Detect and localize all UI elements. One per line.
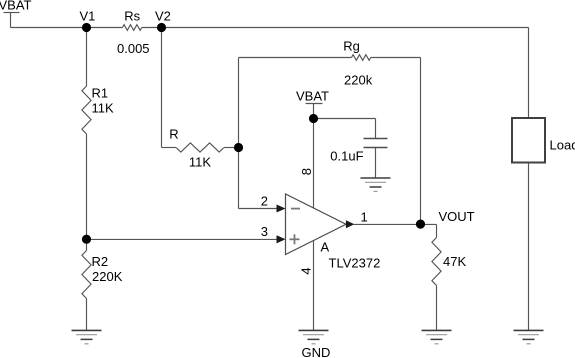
power flag VBAT (top-left) [4, 13, 20, 28]
svg-text:Rs: Rs [124, 9, 140, 24]
ground (R2) [72, 330, 102, 343]
arrowhead output pin 1 [346, 220, 355, 228]
svg-text:220K: 220K [92, 269, 123, 284]
svg-text:V2: V2 [155, 9, 171, 24]
ground (load) [514, 330, 544, 343]
svg-text:R: R [169, 127, 178, 142]
resistor R2 (220K) [82, 251, 91, 299]
svg-text:Load: Load [550, 138, 575, 153]
wire: feedback node vertical (to Rg top and pin2) [238, 58, 240, 209]
arrowhead pin 3 [277, 235, 286, 243]
wire: Rg loop right vertical to output [420, 58, 422, 225]
svg-text:VBAT: VBAT [0, 0, 32, 13]
minus sign (pin 2) [291, 208, 300, 210]
svg-text:47K: 47K [443, 254, 466, 269]
op-amp U1 TLV2372 triangle [286, 194, 347, 255]
wire: output to 47K branch [421, 223, 437, 225]
wire: cap to ground [375, 148, 377, 179]
junction dot node A (pin3) [82, 235, 91, 244]
junction dot VBAT supply [309, 114, 318, 123]
svg-text:R2: R2 [92, 254, 109, 269]
svg-text:2: 2 [261, 194, 268, 209]
svg-text:3: 3 [261, 224, 268, 239]
wire: load to ground [528, 163, 530, 331]
wire: load branch down from top rail [528, 28, 530, 119]
svg-text:TLV2372: TLV2372 [329, 255, 381, 270]
svg-text:0.005: 0.005 [117, 41, 150, 56]
svg-text:4: 4 [299, 267, 314, 274]
arrowhead pin 2 [277, 205, 286, 213]
junction dot VOUT [416, 220, 425, 229]
wire: R1 to node A junction [86, 134, 88, 251]
resistor R (11K) [176, 143, 224, 152]
wire: pin 8 supply vertical [313, 119, 315, 209]
load box [512, 118, 545, 163]
wire: VOUT branch down [436, 224, 438, 237]
wire: supply node to bypass cap [314, 118, 376, 120]
resistor Rg (220k) [352, 55, 371, 61]
wire: Rg to right vertical [371, 57, 421, 59]
svg-text:V1: V1 [80, 9, 96, 24]
plus sign (pin 3) [290, 234, 300, 244]
resistor R1 (11K) [82, 86, 91, 134]
svg-text:R1: R1 [92, 86, 109, 101]
wire: down to cap [375, 119, 377, 139]
junction dot V2 [157, 23, 166, 32]
wire: pin 4 to ground [313, 241, 315, 331]
wire: Rg loop top left segment [239, 57, 352, 59]
wire: R2 to ground [86, 299, 88, 331]
ground (bypass cap) [361, 178, 391, 191]
wire: R to feedback node [224, 147, 239, 149]
wire: pin 3 input from node A [87, 238, 277, 240]
ground (47K) [422, 330, 452, 343]
svg-text:Rg: Rg [343, 39, 360, 54]
svg-text:220k: 220k [344, 73, 373, 88]
svg-text:VOUT: VOUT [439, 209, 475, 224]
wire: V2 node down [161, 28, 163, 148]
svg-text:1: 1 [361, 209, 368, 224]
svg-text:VBAT: VBAT [296, 89, 329, 104]
power flag VBAT (supply) [306, 104, 323, 119]
junction dot feedback node [234, 143, 243, 152]
svg-text:0.1uF: 0.1uF [330, 149, 363, 164]
resistor 47K [432, 238, 441, 286]
svg-text:8: 8 [299, 168, 314, 175]
wire: corner to R [162, 147, 177, 149]
wire: top rail from VBAT flag to Rs [11, 27, 123, 29]
wire: output pin 1 [354, 223, 421, 225]
svg-text:11K: 11K [92, 101, 114, 116]
resistor Rs (0.005) [123, 25, 142, 31]
capacitor C1 0.1uF [364, 139, 388, 148]
svg-text:A: A [321, 239, 330, 254]
wire: top rail from Rs to load branch [142, 27, 529, 29]
junction dot V1 [82, 23, 91, 32]
wire: pin 2 input [239, 208, 277, 210]
wire: 47K to ground [436, 286, 438, 331]
svg-text:GND: GND [302, 345, 331, 358]
ground GND (op-amp pin 4) [299, 330, 329, 343]
wire: V1 node down to R1 [86, 28, 88, 87]
svg-text:11K: 11K [189, 155, 211, 170]
